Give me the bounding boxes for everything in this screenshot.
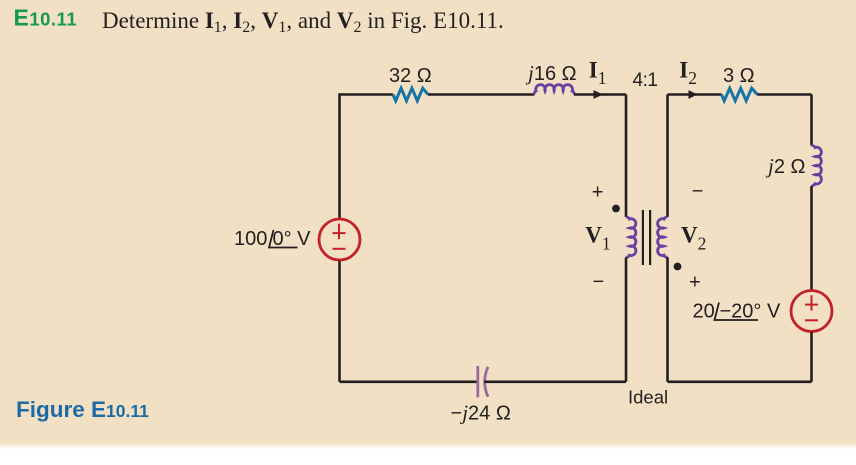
svg-text:j2 Ω: j2 Ω: [765, 154, 806, 178]
right wire middle: [810, 186, 813, 290]
svg-text:100: 100: [234, 228, 267, 250]
transformer primary vertical wire upper: [625, 95, 628, 218]
svg-text:4:1: 4:1: [633, 70, 658, 91]
svg-text:0° V: 0° V: [273, 228, 312, 250]
svg-text:20: 20: [693, 301, 715, 323]
svg-text:Figure E10.11: Figure E10.11: [16, 397, 149, 422]
transformer secondary vertical wire lower: [666, 257, 669, 382]
bottom wire left of capacitor: [340, 380, 478, 383]
arrow I2: [689, 90, 698, 99]
bottom wire right loop: [668, 380, 812, 383]
capacitor -j24 ohm plates: [476, 366, 479, 397]
source 20 angle -20 V circle: [791, 291, 832, 332]
wire top-left corner (source to resistor): [340, 95, 394, 219]
svg-text:Ideal: Ideal: [628, 387, 668, 408]
bottom wire right of capacitor: [484, 380, 626, 383]
transformer primary coil: [626, 217, 636, 257]
svg-text:3 Ω: 3 Ω: [723, 65, 755, 87]
svg-text:32 Ω: 32 Ω: [389, 65, 432, 87]
resistor 32 ohm zigzag: [393, 88, 428, 101]
svg-text:−: −: [692, 181, 704, 203]
transformer secondary vertical wire upper: [666, 95, 669, 218]
svg-text:−: −: [593, 271, 605, 293]
svg-text:−20° V: −20° V: [720, 301, 781, 323]
source 100 angle 0 V circle: [319, 219, 360, 260]
right wire lower: [810, 332, 813, 382]
svg-text:+: +: [689, 272, 701, 294]
transformer primary vertical wire lower: [625, 257, 628, 382]
wire secondary top to resistor: [668, 93, 722, 96]
left wire lower: [338, 261, 341, 382]
wire resistor to inductor: [428, 93, 535, 96]
svg-text:−j24 Ω: −j24 Ω: [451, 401, 511, 425]
arrow I1: [594, 90, 604, 99]
wire resistor to right corner: [757, 93, 811, 96]
inductor j2 ohm: [812, 146, 822, 186]
svg-text:j16 Ω: j16 Ω: [525, 61, 577, 85]
right wire upper: [810, 95, 813, 146]
svg-text:+: +: [592, 181, 604, 203]
phase dot secondary: [674, 263, 682, 271]
resistor 3 ohm zigzag: [722, 88, 758, 101]
phase dot primary: [612, 205, 620, 213]
svg-text:Determine I1, I2, V1, and V2 i: Determine I1, I2, V1, and V2 in Fig. E10…: [102, 8, 504, 36]
svg-text:E10.11: E10.11: [14, 5, 78, 31]
transformer core: [642, 210, 644, 265]
transformer secondary coil: [658, 217, 668, 257]
wire inductor to transformer primary: [574, 93, 626, 96]
inductor j16 ohm: [534, 85, 574, 95]
